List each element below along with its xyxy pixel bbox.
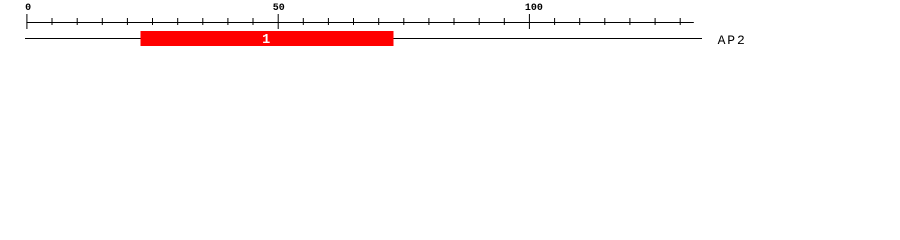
svg-text:AP2: AP2	[718, 33, 747, 48]
major tick 0	[26, 14, 27, 29]
svg-text:1: 1	[262, 33, 270, 48]
ruler axis line	[26, 22, 693, 23]
svg-text:100: 100	[525, 3, 543, 14]
major tick 100	[529, 14, 530, 29]
svg-text:0: 0	[25, 3, 31, 14]
svg-text:50: 50	[273, 3, 285, 14]
minor ticks	[52, 18, 53, 25]
feature bar 1 (red)	[141, 31, 394, 46]
feature baseline	[25, 38, 702, 39]
major tick 50	[278, 14, 279, 29]
